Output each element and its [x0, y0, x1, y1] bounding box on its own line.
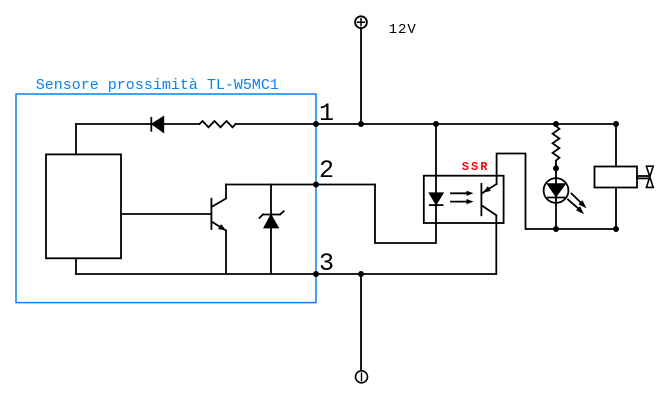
12V supply symbol	[355, 16, 367, 28]
wire rail3 to ground	[360, 274, 362, 371]
wire rail 1 left segment	[76, 123, 200, 125]
svg-text:Sensore prossimità TL-W5MC1: Sensore prossimità TL-W5MC1	[36, 77, 279, 94]
resistor R2 (vertical, LED series)	[553, 124, 560, 165]
LED light arrow 2	[568, 200, 584, 215]
phototransistor (inside optocoupler)	[481, 184, 496, 215]
wire rail 1 right segment	[236, 123, 617, 125]
SSR LED (inside optocoupler)	[430, 193, 443, 205]
ground (0V) symbol	[356, 371, 368, 383]
wire emitter to rail3	[225, 231, 227, 275]
wire 12V to rail1	[360, 28, 362, 124]
sensor head box	[46, 154, 121, 258]
sensor enclosure blue box	[16, 94, 316, 303]
wire sensor box bottom lead	[75, 258, 77, 274]
resistor R1 (series, horizontal)	[200, 121, 236, 127]
relay / solenoid valve coil K1	[595, 167, 638, 188]
transistor Q1 (NPN output)	[211, 185, 226, 231]
wire base lead	[121, 213, 211, 215]
wire node2 to SSR input route	[375, 185, 436, 244]
svg-text:SSR: SSR	[462, 160, 490, 174]
wire resistor to LED	[555, 165, 557, 230]
wire emitter down to rail3	[495, 215, 497, 274]
node: below indicator LED	[553, 226, 559, 232]
node: terminal 2	[313, 182, 319, 188]
opto light arrow upper	[451, 191, 474, 196]
wire relay top lead	[615, 124, 617, 167]
LED light arrow 1	[572, 194, 587, 209]
node: above indicator LED	[553, 165, 559, 171]
zener diode DZ1	[260, 185, 284, 275]
svg-text:12V: 12V	[389, 22, 417, 38]
wire collector route to right rail	[497, 154, 616, 230]
wire rail 3	[76, 273, 496, 275]
wire sensor box top lead	[75, 124, 77, 154]
svg-text:2: 2	[319, 156, 334, 185]
svg-text:3: 3	[319, 249, 334, 278]
node: terminal 1	[313, 121, 319, 127]
wire rail 2	[226, 184, 375, 186]
SSR optocoupler box	[424, 176, 504, 223]
junction dots	[313, 121, 619, 277]
diode D1 (pointing left)	[151, 117, 163, 132]
valve actuator symbol	[637, 166, 653, 187]
opto light arrow lower	[451, 199, 474, 204]
wire relay bottom lead	[615, 188, 617, 230]
indicator LED (circle)	[544, 178, 569, 203]
node: bottom right corner	[613, 226, 619, 232]
node: rail1 right corner	[613, 121, 619, 127]
node: resistor junction on rail1	[553, 121, 559, 127]
node: 12V junction on rail1	[358, 121, 364, 127]
node: terminal 3	[313, 271, 319, 277]
node: SSR anode junction on rail1	[433, 121, 439, 127]
svg-text:1: 1	[319, 99, 334, 128]
node: ground junction on rail3	[358, 271, 364, 277]
wire SSR LED anode from rail1	[435, 124, 437, 193]
